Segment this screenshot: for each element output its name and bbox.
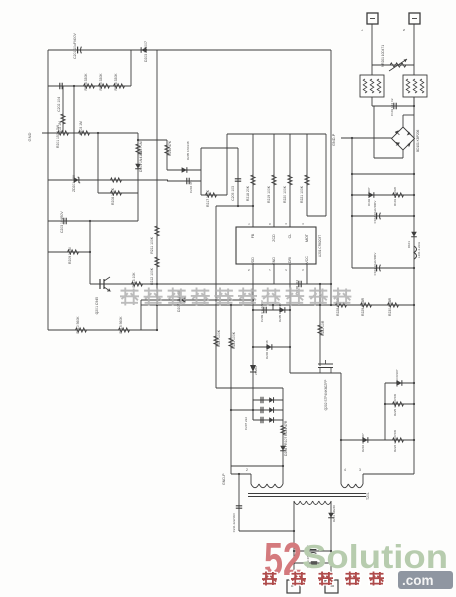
svg-text:R215 560K: R215 560K (119, 316, 123, 334)
capacitor CY1 (236, 506, 242, 508)
svg-text:R217 150K: R217 150K (206, 189, 210, 207)
resistor RN1-1 (363, 79, 367, 93)
diode D205 (280, 307, 285, 313)
wire v320 gate (319, 284, 321, 366)
watermark red cjk (262, 572, 384, 586)
wire varistor rung (372, 64, 414, 66)
svg-text:D211 SR240: D211 SR240 (332, 505, 336, 522)
wire ycap h (239, 530, 294, 532)
node junction (330, 550, 332, 552)
wire h195 (352, 194, 414, 196)
connector CON1 (287, 580, 300, 593)
svg-text:3: 3 (359, 468, 361, 472)
resistor R222 (318, 325, 322, 335)
node junction (413, 173, 415, 175)
node junction (252, 299, 254, 301)
node junction (351, 215, 353, 217)
svg-text:U201 CR6203T: U201 CR6203T (318, 235, 322, 257)
node junction (252, 346, 254, 348)
capacitor C103 (376, 265, 378, 272)
svg-text:VDD: VDD (251, 257, 255, 265)
svg-text:Q202 STP4NK60ZFP: Q202 STP4NK60ZFP (324, 380, 328, 411)
resistor R215 (119, 328, 130, 332)
node junction (351, 173, 353, 175)
svg-text:R222 10R: R222 10R (321, 320, 325, 336)
svg-text:R226 4.7K/0.5W: R226 4.7K/0.5W (393, 430, 397, 452)
wire sec left (293, 501, 295, 580)
zener ZD201 (74, 177, 79, 183)
svg-text:GND-P: GND-P (332, 133, 336, 146)
wire v326 (325, 134, 327, 216)
resistor R219 (272, 175, 276, 185)
wire h305 stub (141, 304, 157, 306)
capacitor Csn1 (261, 397, 263, 403)
wire v253 fb (252, 134, 254, 227)
wire top rail (48, 49, 331, 51)
wire out h551 (294, 550, 331, 552)
node junction (351, 194, 353, 196)
capacitor C213 (310, 549, 317, 551)
wire gnd h133 (42, 132, 138, 134)
node junction (340, 439, 342, 441)
wire dri pin (289, 264, 291, 373)
diode D208 (280, 446, 286, 451)
node junction (230, 409, 232, 411)
resistor R201 (61, 114, 65, 124)
svg-text:C207 222: C207 222 (244, 417, 248, 430)
node junction (330, 304, 332, 306)
svg-text:R209 1.5M: R209 1.5M (68, 247, 72, 264)
svg-text:D208 FR107: D208 FR107 (284, 437, 288, 456)
wire gnd pin (273, 264, 275, 284)
resistor R218 (251, 175, 255, 185)
wire h140 (138, 139, 167, 141)
svg-text:R203 1M: R203 1M (79, 121, 83, 135)
wire aux stub (362, 474, 364, 484)
capacitor C203 (64, 218, 66, 224)
wire bridge jog (403, 114, 414, 116)
capacitor C102 (376, 213, 378, 220)
wire h268 cap (352, 267, 414, 269)
wire ac N (413, 24, 415, 75)
resistor RN2-3 (420, 79, 424, 93)
svg-text:4: 4 (344, 468, 346, 472)
resistor R210 (76, 328, 87, 332)
svg-text:R220 100K: R220 100K (283, 185, 287, 203)
node junction (282, 465, 284, 467)
node junction (289, 346, 291, 348)
node junction (413, 304, 415, 306)
wire ac L2 (371, 65, 373, 75)
transformer T201 core (248, 494, 366, 497)
node junction (252, 309, 254, 311)
node junction (252, 409, 254, 411)
node junction (238, 473, 240, 475)
capacitor C205 (235, 179, 241, 181)
wire v157 (156, 50, 158, 330)
wire gndp h138 (341, 137, 392, 139)
capacitor C206 (299, 281, 301, 287)
node junction (413, 382, 415, 384)
wire h310 (253, 309, 290, 311)
varistor NR201 (390, 63, 406, 67)
wire rail414 (413, 97, 415, 474)
wire rn1 down (371, 97, 373, 106)
wire bus284 (90, 283, 331, 285)
svg-text:R230 0.68R: R230 0.68R (388, 297, 392, 316)
wire h216 cap (352, 215, 414, 217)
zener ZD201 (78, 177, 81, 183)
wire bridge tstub (402, 115, 404, 127)
capacitor C101 (394, 103, 396, 109)
wire h347 (253, 346, 290, 348)
capacitor C214 (311, 562, 317, 564)
svg-text:DRI: DRI (288, 257, 292, 263)
wire stub273 (272, 305, 274, 310)
resistor R209 (68, 250, 79, 254)
node junction (293, 550, 295, 552)
node junction (137, 139, 139, 141)
svg-text:R101 10R/2W: R101 10R/2W (393, 187, 397, 206)
svg-text:R205 330K: R205 330K (99, 73, 103, 91)
svg-text:NR201 10D471: NR201 10D471 (381, 45, 385, 67)
svg-text:ZCD: ZCD (272, 234, 276, 242)
resistor R220 (288, 175, 292, 185)
svg-text:2: 2 (246, 468, 248, 472)
op-amp U201 controller IC (236, 227, 316, 264)
wire snub branch 2 (253, 409, 283, 411)
wire h216 mot (307, 215, 326, 217)
node junction (156, 329, 158, 331)
node junction (330, 562, 332, 564)
resistor R208 (111, 191, 122, 195)
wire h252 (48, 251, 90, 253)
wire h440 (341, 439, 414, 441)
wire v290 cl (289, 134, 291, 227)
svg-text:R223 100K: R223 100K (232, 331, 236, 349)
svg-text:D102 1N4007: D102 1N4007 (367, 187, 371, 206)
svg-text:R206 330K: R206 330K (114, 73, 118, 91)
wire h221 (48, 220, 138, 222)
diode Dsn2 (269, 407, 273, 413)
node junction (319, 283, 321, 285)
wire h181 (167, 180, 201, 182)
svg-text:.com: .com (402, 573, 434, 588)
wire v131 (130, 50, 132, 86)
capacitor C209 (264, 307, 266, 313)
resistor R226 (393, 438, 404, 442)
svg-text:D206 1N4148: D206 1N4148 (265, 340, 269, 359)
resistor R230 (388, 303, 399, 307)
wire h170 (167, 169, 201, 171)
resistor R207 (136, 144, 140, 154)
wire v274 zcd (273, 134, 275, 227)
wire v352 (351, 138, 353, 268)
resistor R223 (229, 338, 233, 348)
svg-text:Q201 C945: Q201 C945 (95, 297, 99, 314)
node junction (156, 283, 158, 285)
svg-text:R216 47K: R216 47K (168, 140, 172, 156)
node junction (252, 205, 254, 207)
wire h86 (48, 85, 131, 87)
svg-text:CL: CL (288, 234, 292, 239)
wire v63 (62, 86, 64, 133)
svg-text:D101: D101 (407, 241, 411, 249)
capacitor Csn3 (261, 417, 263, 423)
node junction (413, 194, 415, 196)
wire v331 long (330, 50, 332, 305)
resistor R216 (165, 145, 169, 155)
svg-text:D205 1N4148: D205 1N4148 (186, 141, 190, 160)
svg-text:D203 1N4007: D203 1N4007 (144, 41, 148, 62)
node junction (156, 304, 158, 306)
diode Dsn3 (269, 417, 273, 423)
wire snub stub (231, 409, 253, 411)
resistor RN2-1 (406, 79, 410, 93)
resistor R217 (206, 193, 217, 197)
wire out h563 (294, 562, 331, 564)
resistor network RN1 (360, 75, 384, 97)
svg-text:R212 100K: R212 100K (150, 267, 154, 285)
resistor R202 (58, 131, 69, 135)
wire v231 (230, 305, 232, 474)
node junction (293, 530, 295, 532)
wire v307 mot (306, 134, 308, 216)
svg-text:R202 1M: R202 1M (58, 121, 62, 135)
diode D102 (369, 192, 374, 198)
resistor R227 (214, 336, 218, 346)
svg-text:C211 222/1KV: C211 222/1KV (232, 513, 236, 532)
svg-text:C202 104: C202 104 (57, 97, 61, 112)
svg-text:R208 100K: R208 100K (111, 187, 115, 205)
node junction (330, 283, 332, 285)
wire snub branch 1 (253, 399, 283, 401)
wire h180 (48, 179, 168, 181)
svg-text:C204 471: C204 471 (189, 180, 193, 193)
svg-text:D204 1N4148: D204 1N4148 (139, 151, 143, 172)
resistor RN1-3 (377, 79, 381, 93)
svg-text:D209 FR107: D209 FR107 (395, 369, 399, 386)
svg-text:R211 100K: R211 100K (150, 236, 154, 253)
node junction (230, 304, 232, 306)
svg-text:C101 104 X2: C101 104 X2 (390, 98, 394, 116)
svg-text:C205 103: C205 103 (231, 186, 235, 201)
capacitor C201 (77, 47, 79, 54)
svg-text:R204 330K: R204 330K (84, 73, 88, 91)
bridge rectifier BD101 (392, 127, 415, 150)
node junction (289, 309, 291, 311)
svg-text:Solution: Solution (302, 538, 448, 575)
node junction (413, 267, 415, 269)
wire v90 (89, 221, 91, 284)
svg-text:FB: FB (251, 233, 255, 238)
wire h195 (201, 194, 227, 196)
connector J1 (367, 13, 378, 24)
resistor R203 (79, 131, 90, 135)
wire prim pin2 v (250, 474, 252, 484)
wire v227 (226, 134, 228, 195)
svg-text:ZD201 18V: ZD201 18V (72, 174, 76, 192)
resistor R221 (305, 175, 309, 185)
capacitor C202 (60, 83, 62, 89)
wire bus305 (157, 304, 414, 306)
node junction (413, 105, 415, 107)
node junction (272, 304, 274, 306)
resistor R229 (361, 303, 372, 307)
svg-text:N: N (402, 29, 406, 31)
svg-text:R218 20K: R218 20K (246, 185, 250, 201)
wire left rail (47, 50, 49, 330)
node junction (237, 205, 239, 207)
wire rn2 down (413, 97, 415, 106)
wire v201 (200, 148, 202, 195)
svg-text:C102 10uF/400V: C102 10uF/400V (373, 201, 377, 224)
wire vdd pin (252, 264, 254, 420)
node junction (73, 85, 75, 87)
node junction (319, 304, 321, 306)
connector CON2 (325, 580, 338, 593)
svg-text:ZD202: ZD202 (254, 366, 258, 375)
diode Dsn1 (269, 397, 273, 403)
wire h330 bottom (48, 329, 157, 331)
wire bridge bstub (402, 150, 404, 158)
svg-text:T201: T201 (366, 492, 370, 500)
wire v385 (384, 383, 386, 440)
connector J2 (409, 13, 420, 24)
diode D207 (180, 297, 185, 303)
wire aux h474 (363, 473, 414, 475)
resistor R212 (155, 257, 159, 267)
capacitor C204 (187, 178, 189, 184)
wire v138 (137, 133, 139, 221)
resistor R224 (281, 426, 285, 435)
diode D204 (135, 164, 141, 169)
resistor R206 (114, 84, 125, 88)
wire h300 fb (141, 299, 253, 301)
diode D209 (397, 380, 402, 386)
transformer T201 aux winding (341, 484, 348, 488)
wire v374 (373, 106, 375, 158)
resistor R211 (155, 226, 159, 236)
resistor network RN2 (403, 75, 427, 97)
capacitor Csn2 (261, 407, 263, 413)
watermark .com box (398, 571, 453, 589)
node junction (97, 132, 99, 134)
svg-text:VCC: VCC (305, 256, 309, 264)
transformer T201 secondary winding (294, 501, 300, 505)
wire v98 (97, 133, 99, 193)
transistor Q201 (100, 279, 104, 289)
svg-text:GND: GND (27, 132, 32, 141)
svg-text:R227 100K: R227 100K (217, 329, 221, 347)
svg-text:R221 100K: R221 100K (300, 185, 304, 203)
wire sec right (330, 501, 332, 580)
svg-text:R210 560K: R210 560K (76, 316, 80, 334)
node junction (293, 562, 295, 564)
svg-text:MOT: MOT (305, 233, 309, 242)
resistor R204 (84, 84, 95, 88)
svg-text:R229 0.68R: R229 0.68R (361, 297, 365, 316)
wire h404 (385, 403, 414, 405)
resistor R228 (336, 303, 347, 307)
wire h193 (98, 192, 138, 194)
wire v167 (166, 140, 168, 170)
wire h174 (352, 173, 414, 175)
svg-text:C201 10uF/400V: C201 10uF/400V (73, 32, 77, 58)
svg-text:D210 UF4007: D210 UF4007 (361, 433, 365, 452)
node junction (413, 403, 415, 405)
wire bridge bottom lead (374, 157, 403, 159)
transistor Q202 MOSFET (318, 364, 333, 368)
node junction (413, 215, 415, 217)
resistor R101 (393, 193, 404, 197)
svg-text:GND: GND (272, 257, 276, 265)
diode D205a (182, 167, 187, 173)
svg-text:R224 47R: R224 47R (284, 420, 288, 436)
wire prim h474 (231, 473, 251, 475)
wire vcc pin (306, 264, 308, 284)
resistor R213 (132, 282, 143, 286)
wire snubber left node (252, 399, 254, 420)
wire snubber bottom (231, 465, 283, 467)
diode D206 (267, 344, 272, 350)
varistor arrow (389, 59, 407, 71)
node junction (384, 403, 386, 405)
wire h148 (201, 147, 238, 149)
svg-text:R225 4.7K/0.5W: R225 4.7K/0.5W (393, 394, 397, 416)
svg-text:D205 1N4148: D205 1N4148 (278, 303, 282, 322)
diode D101 (411, 232, 417, 237)
wire xcap rung (372, 105, 414, 107)
wire v141 (140, 300, 142, 330)
node junction (89, 220, 91, 222)
wire mosfet source down (340, 373, 342, 484)
svg-text:GND-P: GND-P (222, 473, 226, 485)
wire mosfet source (290, 372, 341, 374)
svg-text:R213 10K: R213 10K (132, 272, 136, 288)
wire snubber right chain (282, 388, 284, 484)
resistor R205 (99, 84, 110, 88)
zener ZD202 (250, 365, 256, 372)
svg-text:C103 10uF/400V: C103 10uF/400V (373, 253, 377, 276)
svg-text:BD101 KBP206: BD101 KBP206 (416, 129, 420, 152)
diode D210 (363, 437, 368, 443)
wire h206 (216, 205, 253, 207)
node junction (351, 137, 353, 139)
wire ac L (371, 24, 373, 65)
transformer T201 primary winding (251, 484, 259, 488)
wire v216 (215, 206, 217, 388)
wire ycap v (238, 474, 240, 531)
node junction (89, 251, 91, 253)
wire snubber top (216, 387, 283, 389)
watermark company text (120, 288, 351, 306)
diode D203 (141, 47, 146, 53)
resistor RN2-2 (413, 79, 417, 93)
wire h134 rail (227, 133, 326, 135)
node junction (413, 439, 415, 441)
resistor RN1-2 (370, 79, 374, 93)
resistor R225 (393, 402, 404, 406)
svg-text:L101 2.2mH: L101 2.2mH (417, 242, 421, 258)
wire snub branch 3 (253, 419, 283, 421)
wire v74 (73, 86, 75, 180)
wire v238 (237, 148, 239, 206)
svg-text:R219 100K: R219 100K (267, 185, 271, 203)
diode D211 (328, 513, 334, 518)
svg-text:C203 104/50V: C203 104/50V (60, 211, 64, 233)
wire h383 (385, 382, 414, 384)
